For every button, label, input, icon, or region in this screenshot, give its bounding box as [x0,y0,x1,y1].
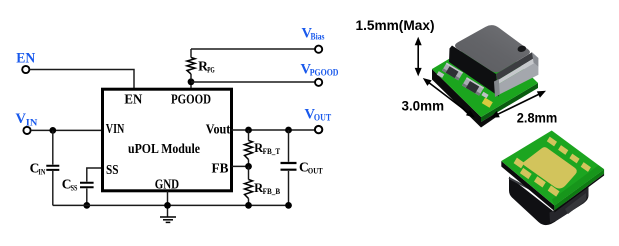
gold pad on pcb corner [482,98,493,108]
junction GND-rail [164,202,171,209]
svg-text:3.0mm: 3.0mm [402,99,445,114]
wire ground rail [53,204,289,206]
svg-text:1.5mm(Max): 1.5mm(Max) [356,18,435,33]
svg-text:PGOOD: PGOOD [171,93,211,108]
svg-text:SS: SS [106,162,119,177]
svg-text:PG: PG [207,65,215,75]
edge solder pad left [437,71,445,78]
svg-text:FB_T: FB_T [263,147,281,156]
junction Vout-COUT [285,127,292,134]
svg-text:2.8mm: 2.8mm [517,110,558,125]
resistor RFB_B [245,166,253,205]
package body bottom view [509,177,589,226]
mold right face [496,52,534,80]
substrate rim left [501,161,554,211]
metal shield light strip [497,59,534,85]
junction PGOOD-RPG [188,78,195,85]
svg-text:FB_B: FB_B [263,187,281,196]
node EN terminal circle [22,66,29,73]
substrate rim right lower [554,174,604,213]
svg-text:OUT: OUT [308,166,323,176]
metal shield left end [494,79,500,97]
junction VIN-CIN [49,127,56,134]
resistor RPG [187,49,195,80]
package body right face [550,187,589,224]
junction RFB_B-rail [245,202,252,209]
wire VPGOOD rail [191,81,315,83]
thermal pad [523,147,577,188]
wire VIN to module [31,129,102,131]
svg-text:OUT: OUT [314,114,332,124]
io pads [547,137,557,147]
wire FB pin [232,165,249,167]
capacitor COUT [281,130,297,205]
package body edge highlight [509,178,531,190]
svg-text:PGOOD: PGOOD [310,69,339,79]
uPOL module U1 body [103,89,232,191]
node VIN terminal circle [23,127,30,134]
svg-text:EN: EN [124,93,142,108]
wire EN to module [30,70,134,89]
dimension arrow 3.0mm [428,82,469,113]
module PCB top face [432,35,538,117]
metal shield band [498,63,539,95]
capacitor CSS [80,183,94,206]
dimension arrow height [417,44,419,70]
resistor RFB_T [245,130,253,166]
edge solder pad right [481,92,488,99]
wire SS pin to CSS [87,168,102,182]
wire VBias rail [191,48,315,50]
svg-text:GND: GND [155,177,180,192]
mold front-left face [449,46,499,97]
ground [160,217,176,222]
pin1 hole [517,45,527,53]
node VOUT terminal circle [315,126,322,133]
svg-text:FB: FB [212,161,229,176]
svg-text:SS: SS [71,182,78,192]
svg-text:Bias: Bias [311,32,325,42]
substrate bottom face [501,131,604,206]
wire Vout rail [232,129,315,131]
svg-text:EN: EN [16,50,35,66]
package body right ledge [565,193,586,214]
metal shield corner wrap [532,52,538,67]
substrate face shading [552,165,604,205]
node VBias terminal circle [315,46,322,53]
smd component 2 [462,77,484,96]
capacitor CIN [46,130,59,205]
junction FB [245,163,252,170]
junction COUT-rail [285,202,292,209]
svg-text:uPOL Module: uPOL Module [128,141,200,156]
node VPGOOD terminal circle [315,79,322,86]
wire GND pin [167,191,169,217]
junction CSS-rail [83,202,90,209]
dimension arrow 2.8mm [497,94,540,115]
svg-text:Vout: Vout [206,121,231,136]
junction Vout-RFBT [245,127,252,134]
wire PGOOD pin [190,82,192,88]
svg-text:VIN: VIN [106,121,125,136]
substrate rim right [554,169,604,210]
smd component 1 [442,63,463,81]
module PCB side faces [432,69,481,128]
svg-text:IN: IN [38,166,46,176]
